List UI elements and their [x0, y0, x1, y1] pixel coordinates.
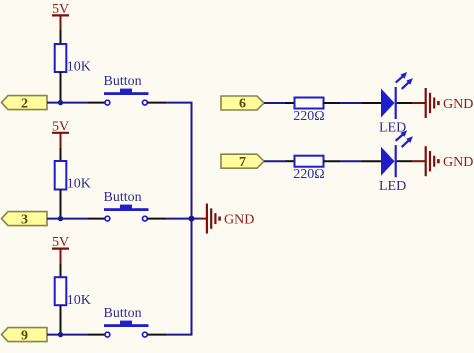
- svg-text:3: 3: [21, 212, 28, 227]
- wire: [397, 102, 425, 104]
- LED D1: [381, 72, 413, 119]
- port 6: [221, 96, 264, 110]
- port 2: [2, 96, 48, 110]
- svg-text:220Ω: 220Ω: [293, 109, 324, 124]
- wire: [60, 147, 62, 161]
- resistor R4: [295, 98, 324, 109]
- svg-text:GND: GND: [443, 97, 473, 112]
- wire: [264, 160, 295, 162]
- svg-text:10K: 10K: [67, 177, 91, 192]
- wire: [60, 30, 62, 44]
- svg-text:9: 9: [21, 328, 28, 343]
- ground GND (row 6): [426, 88, 474, 118]
- svg-text:2: 2: [21, 96, 28, 111]
- pushbutton S2: [104, 205, 149, 221]
- svg-text:Button: Button: [104, 74, 142, 89]
- svg-text:Button: Button: [104, 306, 142, 321]
- wire: [264, 102, 295, 104]
- port 7: [221, 154, 264, 168]
- wire: [147, 334, 192, 336]
- wire: [47, 102, 105, 104]
- power 5V (row 2): [52, 119, 69, 147]
- wire: [324, 160, 382, 162]
- svg-text:7: 7: [239, 155, 246, 170]
- svg-text:LED: LED: [379, 179, 406, 194]
- ground GND (buttons): [207, 204, 254, 234]
- ground GND (row 7): [426, 146, 474, 176]
- node (bus junction): [189, 216, 195, 222]
- resistor R3: [55, 277, 67, 305]
- wire: [147, 102, 192, 104]
- wire: [47, 334, 105, 336]
- port 3: [2, 212, 48, 226]
- resistor R2: [55, 161, 67, 190]
- LED D2: [381, 130, 413, 177]
- svg-text:GND: GND: [224, 213, 254, 228]
- wire: [60, 263, 62, 277]
- pushbutton S1: [104, 89, 149, 105]
- node (junction row 2): [58, 216, 63, 221]
- node (junction row 1): [58, 100, 63, 105]
- pushbutton S3: [104, 321, 149, 337]
- power 5V (row 1): [52, 2, 69, 30]
- wire: [47, 218, 105, 220]
- node (junction row 3): [58, 332, 63, 337]
- port 9: [2, 328, 48, 342]
- wire: [60, 72, 62, 103]
- svg-text:Button: Button: [104, 190, 142, 205]
- wire: [192, 218, 207, 220]
- wire: [324, 102, 382, 104]
- wire: [60, 305, 62, 334]
- wire: [147, 218, 192, 220]
- svg-text:GND: GND: [443, 155, 473, 170]
- svg-text:10K: 10K: [67, 60, 91, 75]
- svg-text:6: 6: [239, 97, 246, 112]
- resistor R1: [55, 44, 67, 72]
- wire: [397, 160, 425, 162]
- wire (common bus): [191, 103, 193, 335]
- svg-text:220Ω: 220Ω: [293, 167, 324, 182]
- svg-text:10K: 10K: [67, 293, 91, 308]
- wire: [60, 190, 62, 219]
- resistor R5: [295, 156, 324, 167]
- power 5V (row 3): [52, 235, 69, 263]
